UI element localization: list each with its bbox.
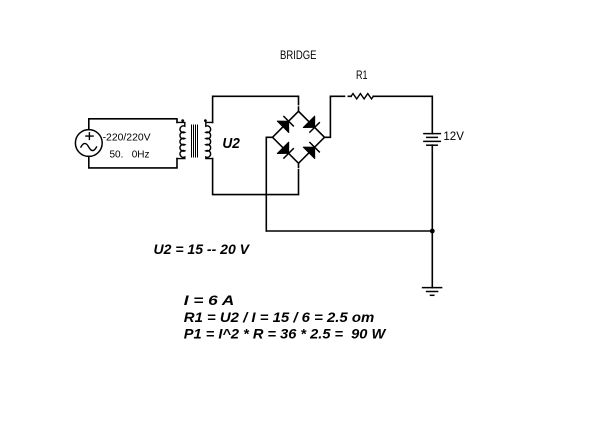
transformer T1 core <box>192 125 198 157</box>
junction dot <box>430 229 435 234</box>
AC source sine wave <box>81 143 97 150</box>
svg-text:I = 6 A: I = 6 A <box>184 292 235 308</box>
bridge diode D1 (left-top edge) <box>277 117 293 133</box>
svg-text:R1 = U2 / I = 15 / 6 = 2.5 om: R1 = U2 / I = 15 / 6 = 2.5 om <box>184 309 374 325</box>
transformer polarity dot secondary <box>204 119 207 122</box>
svg-text:U2 = 15 -- 20 V: U2 = 15 -- 20 V <box>154 241 251 257</box>
battery V2 12V <box>424 134 440 146</box>
wire top-left loop <box>89 119 177 130</box>
svg-text:BRIDGE: BRIDGE <box>280 50 317 62</box>
bridge diode D3 (left-bottom edge) <box>277 142 293 158</box>
svg-text:50. 0Hz: 50. 0Hz <box>110 150 150 161</box>
resistor R1 <box>351 94 373 99</box>
AC source plus sign <box>86 133 93 140</box>
wire R1 to battery <box>373 96 432 133</box>
bridge diode D2 (top-right edge) <box>303 116 319 132</box>
wire bridge left vertex to bottom rail <box>266 137 272 231</box>
AC source V1 <box>75 130 102 157</box>
svg-text:-220/220V: -220/220V <box>103 132 151 143</box>
transformer T1 primary winding <box>177 122 185 158</box>
wire secondary top to bridge <box>213 96 299 122</box>
bridge rectifier diamond <box>273 111 325 163</box>
wire bridge right vertex to R1 <box>325 96 352 137</box>
bottom rail wire <box>266 230 432 232</box>
transformer T1 secondary winding <box>206 122 213 158</box>
svg-text:P1 = I^2 * R = 36 * 2.5 = 90: P1 = I^2 * R = 36 * 2.5 = 90 W <box>184 326 387 342</box>
svg-text:R1: R1 <box>356 70 368 82</box>
wire secondary bottom to bridge <box>213 159 299 195</box>
wire battery to bottom rail and ground <box>431 145 433 287</box>
svg-text:U2: U2 <box>222 136 240 152</box>
svg-text:12V: 12V <box>443 131 464 143</box>
ground <box>423 288 442 296</box>
bridge diode D4 (bottom-right edge) <box>303 143 319 159</box>
wire bottom-left loop <box>89 157 177 168</box>
transformer polarity dot primary <box>181 119 184 122</box>
